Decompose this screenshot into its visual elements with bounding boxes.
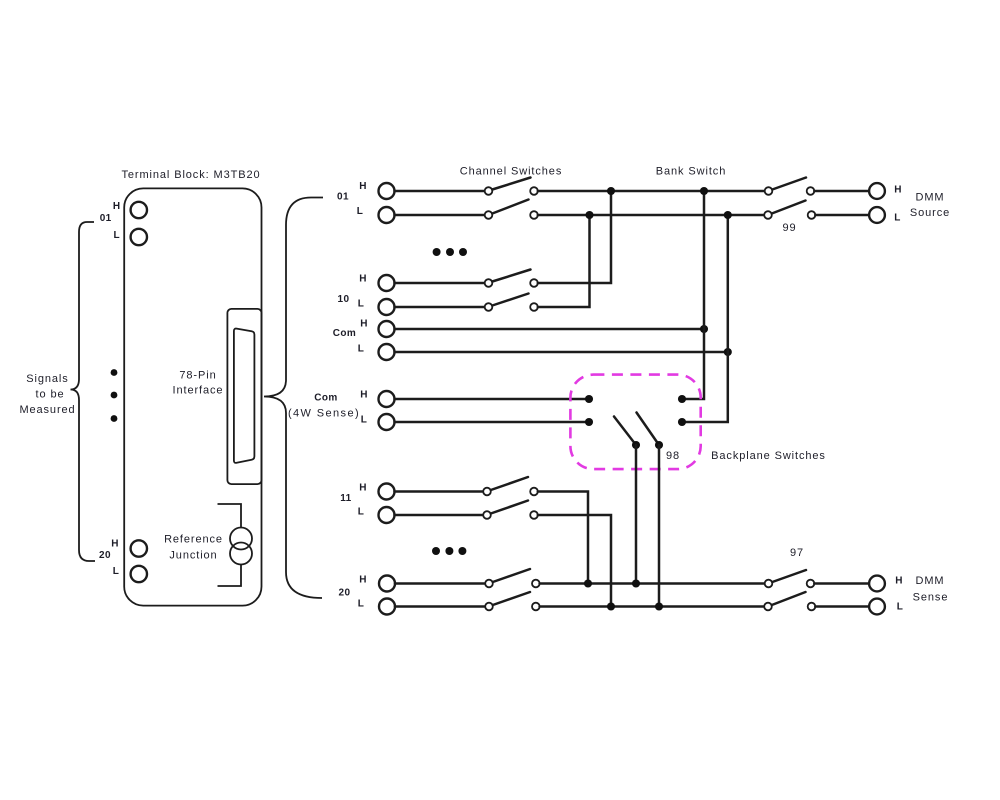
junction dot com L	[724, 348, 732, 356]
channel switch ch20 L blade	[493, 592, 530, 605]
svg-text:H: H	[359, 274, 367, 285]
switch 97 H right contact	[807, 580, 815, 588]
reference junction bracket	[218, 504, 242, 586]
78-pin connector outline	[227, 309, 261, 484]
junction dot ch01L/ch10L	[585, 211, 593, 219]
svg-text:97: 97	[790, 547, 804, 559]
channel switch ch10 L blade	[492, 294, 528, 306]
wire ch10 L up-link	[538, 215, 590, 307]
backplane contact 4W H	[585, 395, 593, 403]
DMM source H terminal	[869, 183, 885, 199]
backplane switch blade 1	[614, 417, 636, 446]
wire com H to bank vertical	[395, 328, 705, 331]
svg-text:99: 99	[782, 222, 796, 234]
bank switch L right contact	[808, 211, 816, 219]
svg-text:L: L	[894, 213, 901, 224]
svg-text:L: L	[113, 230, 120, 241]
terminal 01 L circle	[131, 229, 147, 245]
terminal circle ch20 L	[379, 599, 395, 615]
wire backplane blade1 down to ch20 H	[635, 445, 638, 584]
junction dot ch11L/ch20L	[607, 602, 615, 610]
wire ch20 L to switch 97	[540, 605, 764, 608]
svg-text:Channel Switches: Channel Switches	[460, 166, 562, 178]
wire com L to bank vertical	[395, 351, 728, 354]
channel switch ch20 H blade	[493, 569, 530, 582]
backplane blade 2 pivot dot	[655, 441, 663, 449]
channel switch ch10 H right contact	[530, 279, 538, 287]
svg-text:Bank Switch: Bank Switch	[656, 166, 726, 178]
svg-text:L: L	[357, 206, 364, 217]
svg-text:78-Pin: 78-Pin	[179, 370, 216, 382]
DMM sense H terminal	[869, 576, 885, 592]
wire ch01 L to bank switch	[538, 214, 764, 217]
channel switch ch11 H left contact	[483, 488, 491, 496]
svg-text:L: L	[113, 566, 120, 577]
wire ch11 L down-link	[538, 515, 611, 607]
svg-text:Sense: Sense	[913, 592, 949, 604]
wire ch20 H to switch	[395, 582, 485, 585]
svg-text:L: L	[361, 415, 368, 426]
channel switch ch20 L right contact	[532, 603, 540, 611]
switch 97 L right contact	[808, 603, 816, 611]
backplane contact bank H	[678, 395, 686, 403]
svg-text:H: H	[359, 575, 367, 586]
wire ch01 L to switch	[395, 214, 485, 217]
bank switch L blade	[772, 201, 806, 214]
bank switch H left contact	[765, 187, 773, 195]
svg-text:Junction: Junction	[169, 550, 217, 562]
terminal circle ch11 H	[379, 484, 395, 500]
channel switch ch01 H blade	[492, 178, 530, 190]
backplane switches dashed enclosure	[570, 375, 700, 470]
DMM sense L terminal	[869, 599, 885, 615]
junction dot backplane1/ch20H	[632, 579, 640, 587]
wire 97 H to DMM sense	[814, 582, 869, 585]
wire ch10 L to switch	[395, 306, 485, 309]
bank switch L left contact	[764, 211, 772, 219]
svg-text:Source: Source	[910, 207, 950, 219]
svg-text:H: H	[894, 185, 902, 196]
wire ch20 H to switch 97	[540, 582, 765, 585]
terminal circle 4W H	[379, 391, 395, 407]
terminal 20 H circle	[131, 540, 147, 556]
terminal circle ch01 L	[379, 207, 395, 223]
channel switch ch20 H left contact	[485, 580, 493, 588]
junction dot ch11H/ch20H	[584, 579, 592, 587]
svg-text:98: 98	[666, 450, 680, 462]
backplane blade 1 pivot dot	[632, 441, 640, 449]
channel switch ch11 L right contact	[530, 511, 538, 519]
terminal 20 L circle	[131, 566, 147, 582]
svg-text:L: L	[358, 507, 365, 518]
bank switch H blade	[772, 178, 806, 190]
wire ch01 H to switch	[395, 190, 485, 193]
bank bus vertical L	[682, 215, 728, 422]
vertical ellipsis dots (block)	[111, 369, 118, 376]
wire ch11 L to switch	[395, 514, 484, 517]
channel switch ch01 H left contact	[485, 187, 493, 195]
svg-text:H: H	[360, 319, 368, 330]
junction dot backplane2/ch20L	[655, 602, 663, 610]
svg-text:Signals: Signals	[26, 373, 68, 385]
svg-text:L: L	[358, 299, 365, 310]
terminal circle ch10 L	[379, 299, 395, 315]
reference junction symbol upper circle	[230, 528, 252, 550]
svg-text:Interface: Interface	[173, 385, 224, 397]
switch 97 L left contact	[764, 603, 772, 611]
wire 97 L to DMM sense	[815, 605, 869, 608]
svg-text:H: H	[113, 201, 121, 212]
channel switch ch20 L left contact	[485, 603, 493, 611]
channel switch ch11 L blade	[491, 501, 528, 514]
channel switch ch10 H blade	[492, 270, 530, 282]
svg-text:Measured: Measured	[19, 404, 75, 416]
terminal circle ch10 H	[379, 275, 395, 291]
channel switch ch10 L right contact	[530, 303, 538, 311]
svg-text:01: 01	[337, 192, 349, 203]
backplane contact 4W L	[585, 418, 593, 426]
wire ch01 H to bank switch	[538, 190, 765, 193]
svg-text:Reference: Reference	[164, 534, 223, 546]
svg-text:L: L	[358, 599, 365, 610]
terminal 01 H circle	[131, 202, 147, 218]
channel switch ch11 H right contact	[530, 488, 538, 496]
channel switch ch01 L left contact	[485, 211, 493, 219]
svg-text:H: H	[359, 181, 367, 192]
switch 97 H blade	[772, 570, 806, 582]
junction dot bank L top	[724, 211, 732, 219]
channel switch ch11 H blade	[491, 477, 528, 490]
svg-text:10: 10	[338, 294, 350, 305]
reference junction symbol lower circle	[230, 543, 252, 565]
terminal block body	[124, 188, 261, 605]
junction dot com H	[700, 325, 708, 333]
channel switch ch10 H left contact	[485, 279, 493, 287]
backplane switch blade 2	[637, 413, 660, 446]
svg-text:DMM: DMM	[916, 192, 945, 204]
channel switch ch01 L blade	[492, 200, 528, 214]
backplane contact bank L	[678, 418, 686, 426]
wire ch20 L to switch	[395, 605, 485, 608]
channel switch ch10 L left contact	[485, 303, 493, 311]
switch 97 H left contact	[765, 580, 773, 588]
channel switch ch01 L right contact	[530, 211, 538, 219]
wire bank H to DMM source	[814, 190, 869, 193]
svg-text:L: L	[897, 602, 904, 613]
svg-text:H: H	[111, 539, 119, 550]
terminal circle com H	[379, 321, 395, 337]
svg-text:to be: to be	[36, 389, 65, 401]
right brace (78-pin interface fan-out)	[264, 198, 323, 599]
horizontal ellipsis dots (channels 02-09)	[433, 248, 441, 256]
svg-text:(4W Sense): (4W Sense)	[288, 408, 360, 420]
svg-text:Backplane Switches: Backplane Switches	[711, 450, 826, 462]
svg-text:Terminal Block: M3TB20: Terminal Block: M3TB20	[121, 169, 260, 181]
terminal circle com L	[379, 344, 395, 360]
left brace (signals to be measured)	[71, 222, 96, 561]
junction dot bank H top	[700, 187, 708, 195]
svg-text:DMM: DMM	[916, 575, 945, 587]
wire ch10 H to switch	[395, 282, 485, 285]
DMM source L terminal	[869, 207, 885, 223]
bank bus vertical H	[682, 191, 704, 399]
svg-text:H: H	[360, 390, 368, 401]
svg-text:20: 20	[99, 550, 111, 561]
channel switch ch01 H right contact	[530, 187, 538, 195]
terminal circle ch20 H	[379, 576, 395, 592]
wire ch10 H up-link	[538, 191, 611, 283]
wire 4W L into backplane	[395, 421, 590, 424]
junction dot ch01H/ch10H	[607, 187, 615, 195]
wire ch11 H to switch	[395, 490, 484, 493]
svg-text:H: H	[895, 576, 903, 587]
svg-text:Com: Com	[314, 393, 337, 404]
svg-text:L: L	[358, 344, 365, 355]
svg-text:H: H	[359, 483, 367, 494]
terminal circle ch11 L	[379, 507, 395, 523]
svg-text:01: 01	[100, 213, 112, 224]
switch 97 L blade	[772, 592, 806, 605]
wire 4W H into backplane	[395, 398, 590, 401]
channel switch ch20 H right contact	[532, 580, 540, 588]
terminal circle ch01 H	[379, 183, 395, 199]
horizontal ellipsis dots (channels 12-19)	[432, 547, 440, 555]
svg-text:Com: Com	[333, 328, 356, 339]
wire backplane blade2 down to ch20 L	[658, 445, 661, 607]
wire bank L to DMM source	[815, 214, 869, 217]
terminal circle 4W L	[379, 414, 395, 430]
bank switch H right contact	[807, 187, 815, 195]
svg-text:11: 11	[340, 493, 351, 504]
channel switch ch11 L left contact	[483, 511, 491, 519]
78-pin connector inner face	[234, 329, 255, 463]
svg-text:20: 20	[339, 588, 351, 599]
wire ch11 H down-link	[538, 492, 588, 584]
